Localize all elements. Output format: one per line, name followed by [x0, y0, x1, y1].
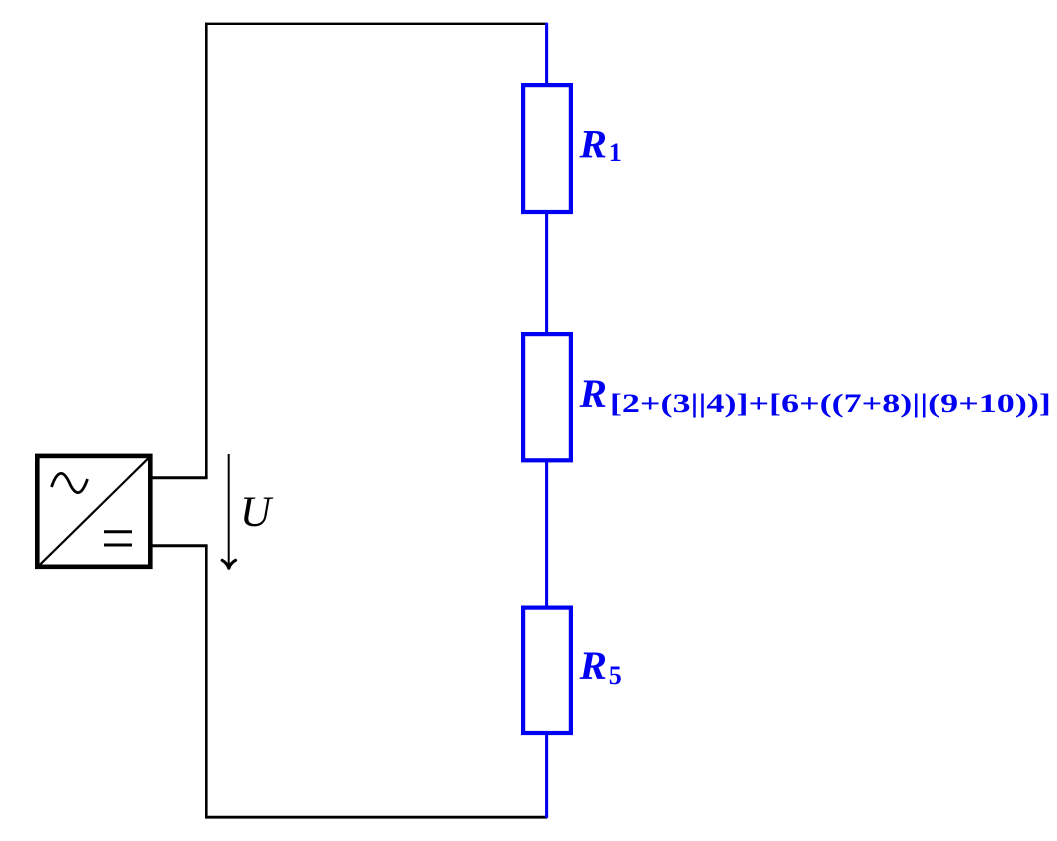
wire bottom [205, 816, 547, 819]
source AC sine symbol [52, 473, 88, 492]
wire stub source + terminal [151, 476, 208, 479]
svg-text:R: R [578, 121, 607, 166]
voltage arrow U head [222, 560, 235, 568]
wire blue R1 to R2 [545, 212, 548, 334]
source DC equals symbol [104, 532, 132, 545]
svg-text:[2+(3||4)]+[6+((7+8)||(9+10))]: [2+(3||4)]+[6+((7+8)||(9+10))] [610, 389, 1051, 418]
wire blue top (into R1) [545, 23, 548, 85]
svg-text:R: R [578, 371, 607, 416]
wire left lower (source - terminal down to bottom corner) [205, 546, 208, 819]
wire left upper (top corner down to source + terminal) [205, 23, 208, 478]
voltage arrow U shaft [228, 454, 230, 567]
resistor R1 body [523, 85, 571, 212]
source diagonal divider [40, 458, 148, 564]
resistor R2346789/10 body [523, 334, 571, 460]
svg-text:R: R [578, 643, 607, 688]
wire top (node top-left corner to resistor chain) [205, 23, 547, 25]
svg-text:1: 1 [609, 138, 622, 167]
resistor R5 body [523, 608, 571, 733]
wire stub source - terminal [151, 544, 208, 547]
wire blue bottom (R5 to bottom wire) [545, 732, 548, 818]
svg-text:5: 5 [609, 661, 622, 690]
source U1 box (AC/DC converter outline) [37, 456, 150, 567]
wire blue R2 to R5 [545, 460, 548, 607]
svg-text:U: U [240, 489, 274, 536]
